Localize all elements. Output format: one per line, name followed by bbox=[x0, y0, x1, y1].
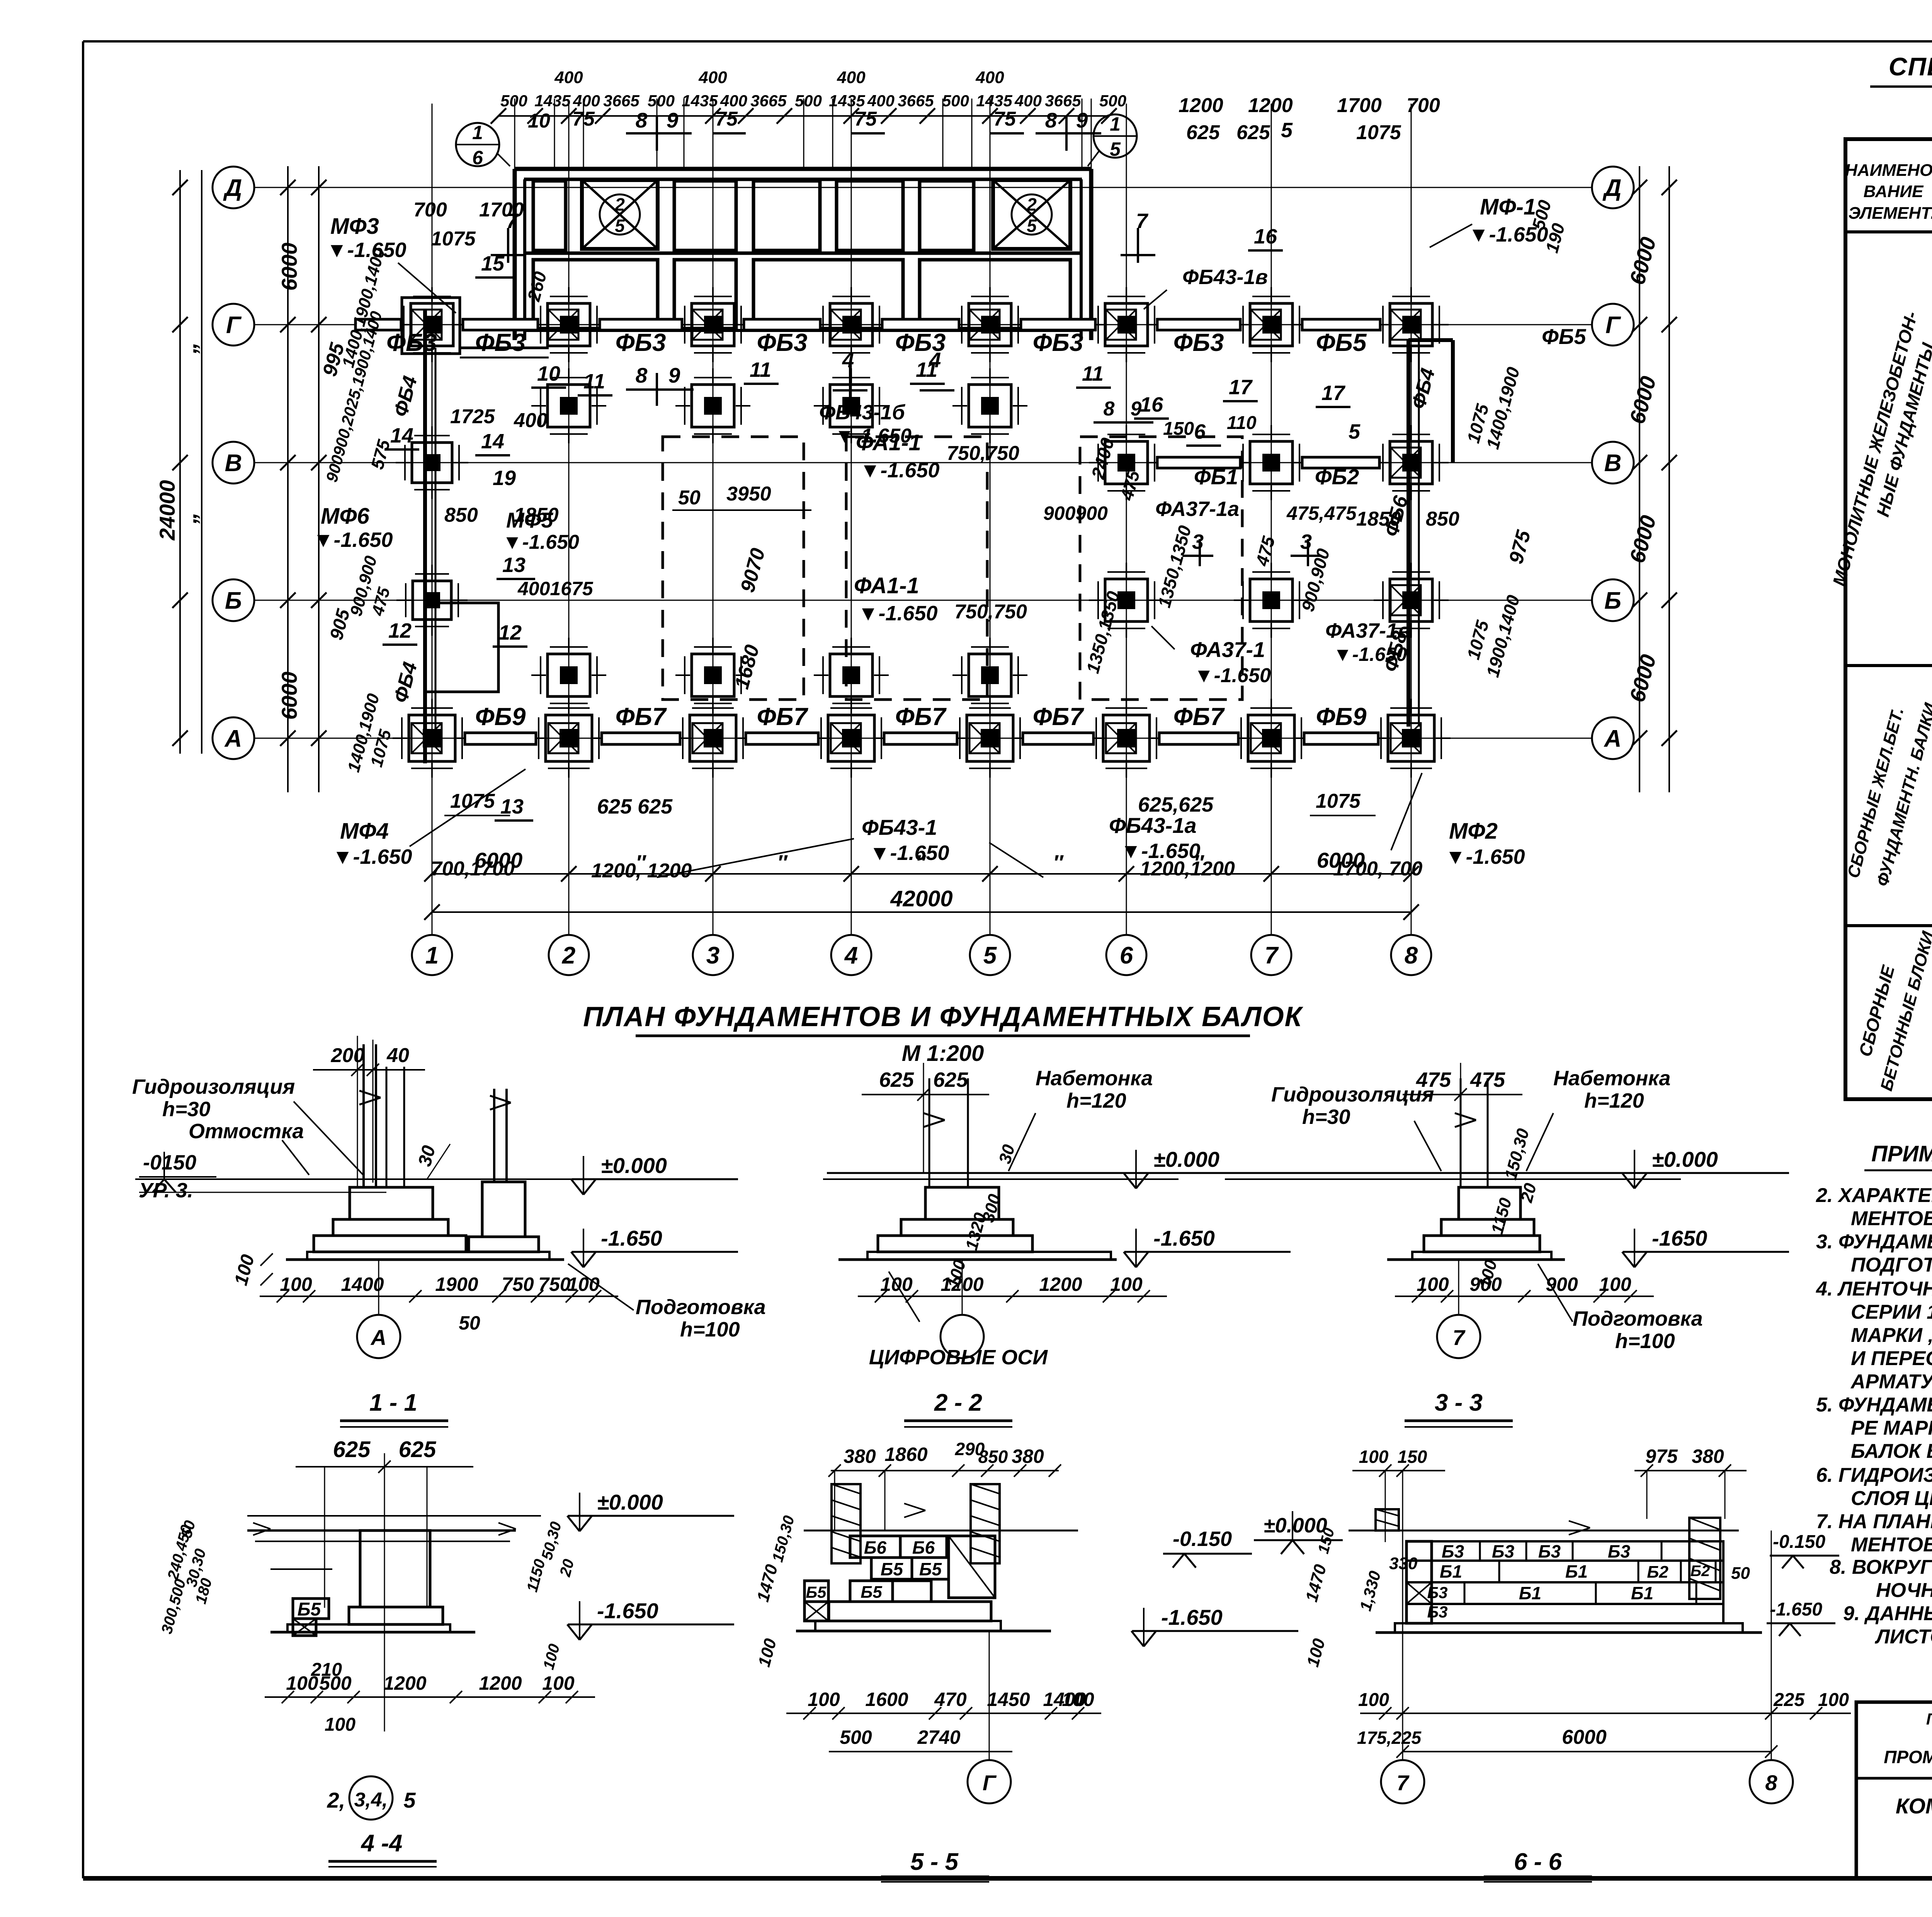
svg-text:И ПЕРЕСЕЧЕНИЯХ ЛЕНТОЧНЫХ ФУ: И ПЕРЕСЕЧЕНИЯХ ЛЕНТОЧНЫХ ФУНДАМЕНТОВ УКЛ… bbox=[1851, 1347, 1932, 1370]
svg-text:1350,1350: 1350,1350 bbox=[1154, 523, 1195, 610]
wall top inner line bbox=[524, 178, 1082, 181]
axis line 1 bbox=[432, 104, 433, 935]
svg-text:10: 10 bbox=[537, 362, 560, 385]
svg-text:h=30: h=30 bbox=[162, 1098, 211, 1121]
foundation pad row Г-В bbox=[969, 385, 1011, 427]
svg-text:Д: Д bbox=[223, 175, 242, 201]
svg-text:МФ3: МФ3 bbox=[330, 214, 379, 239]
svg-text:УР. 3.: УР. 3. bbox=[139, 1179, 193, 1202]
svg-text:3: 3 bbox=[1300, 530, 1312, 553]
axis line 6 bbox=[1126, 104, 1127, 935]
svg-text:▼-1.650: ▼-1.650 bbox=[313, 528, 393, 552]
svg-text:Гидроизоляция: Гидроизоляция bbox=[132, 1075, 295, 1098]
foundation pad row А bbox=[690, 715, 736, 761]
svg-text:475: 475 bbox=[1470, 1068, 1505, 1091]
svg-text:Б3: Б3 bbox=[1427, 1603, 1447, 1621]
svg-text:30: 30 bbox=[995, 1142, 1019, 1166]
svg-text:ФБ9: ФБ9 bbox=[475, 703, 526, 730]
foundation pad row А bbox=[1388, 715, 1434, 761]
svg-text:ФБ43-1: ФБ43-1 bbox=[862, 815, 937, 839]
svg-text:А: А bbox=[224, 725, 242, 752]
svg-text:ФБ5: ФБ5 bbox=[1316, 329, 1367, 356]
svg-text:2400: 2400 bbox=[1088, 436, 1118, 481]
svg-text:±0.000: ±0.000 bbox=[1153, 1147, 1219, 1171]
svg-text:Б1: Б1 bbox=[1631, 1583, 1653, 1603]
svg-text:13: 13 bbox=[502, 553, 526, 577]
svg-text:5: 5 bbox=[615, 216, 625, 236]
svg-text:7. НА ПЛАНЕ ПУНКТИРОМ ПОКАЗ: 7. НА ПЛАНЕ ПУНКТИРОМ ПОКАЗАНЫ ГАБАРИТЫ … bbox=[1816, 1510, 1932, 1533]
bottom dim line 6000 row bbox=[432, 873, 1411, 875]
svg-text:400: 400 bbox=[1014, 92, 1042, 110]
left dim chain lines bbox=[179, 170, 181, 754]
axis line Б bbox=[254, 600, 1592, 601]
svg-text:400: 400 bbox=[867, 92, 895, 110]
svg-text:6000: 6000 bbox=[1625, 513, 1661, 566]
svg-text:ПЛАН ФУНДАМЕНТОВ И ФУНДАМЕНТНЫ: ПЛАН ФУНДАМЕНТОВ И ФУНДАМЕНТНЫХ БАЛОК bbox=[583, 1001, 1304, 1032]
svg-text:h=100: h=100 bbox=[680, 1318, 740, 1341]
svg-text:ФБ43-1в: ФБ43-1в bbox=[1182, 266, 1268, 289]
svg-text:625: 625 bbox=[1236, 121, 1270, 144]
svg-text:Г: Г bbox=[983, 1771, 997, 1795]
wall left edge bbox=[513, 169, 517, 340]
svg-text:Б2: Б2 bbox=[1647, 1563, 1668, 1582]
section 2-2 bottom dims bbox=[858, 1296, 1167, 1297]
panel lower 3 bbox=[753, 260, 903, 329]
foundation pad row Б-А bbox=[830, 654, 872, 696]
foundation pad row Г bbox=[692, 303, 734, 346]
svg-text:100: 100 bbox=[1110, 1273, 1143, 1295]
svg-text:625: 625 bbox=[879, 1068, 914, 1091]
foundation pad row Г bbox=[969, 303, 1011, 346]
axis circle А right bbox=[1592, 717, 1634, 759]
svg-text:8: 8 bbox=[1045, 108, 1057, 132]
svg-text:150: 150 bbox=[1398, 1447, 1427, 1467]
dashed outline compressor 3 bbox=[1080, 437, 1242, 700]
svg-text:6: 6 bbox=[472, 147, 483, 169]
axis line 7 bbox=[1271, 104, 1272, 935]
axis line Д bbox=[254, 187, 1592, 188]
svg-text:Б5: Б5 bbox=[919, 1559, 942, 1579]
svg-text:h=100: h=100 bbox=[1615, 1330, 1675, 1353]
svg-text:2740: 2740 bbox=[917, 1726, 960, 1748]
foundation pad row Б right bbox=[1105, 579, 1148, 621]
svg-text:6000: 6000 bbox=[1317, 848, 1365, 872]
foundation pad row Г-В bbox=[830, 385, 872, 427]
foundation pad row Б-А bbox=[548, 654, 590, 696]
panel lower 1 bbox=[533, 260, 658, 329]
svg-text:700: 700 bbox=[413, 199, 447, 221]
svg-text:ФБ7: ФБ7 bbox=[895, 703, 947, 730]
svg-text:″: ″ bbox=[1194, 851, 1204, 874]
svg-text:14: 14 bbox=[390, 424, 413, 447]
svg-text:75: 75 bbox=[854, 108, 877, 130]
svg-text:±0.000: ±0.000 bbox=[601, 1153, 667, 1178]
wall col1 stub at Г bbox=[402, 298, 460, 354]
svg-text:ФБ3: ФБ3 bbox=[1033, 329, 1083, 356]
svg-text:-1.650: -1.650 bbox=[597, 1599, 658, 1623]
svg-text:995: 995 bbox=[318, 340, 349, 379]
svg-text:475,475: 475,475 bbox=[1286, 502, 1357, 524]
svg-text:-1650: -1650 bbox=[1652, 1226, 1707, 1250]
svg-text:17: 17 bbox=[1321, 381, 1346, 405]
section 3-3 drawing bbox=[1225, 1178, 1681, 1180]
svg-text:1900: 1900 bbox=[435, 1273, 478, 1295]
axis line 3 bbox=[713, 104, 714, 935]
svg-text:4 -4: 4 -4 bbox=[361, 1830, 403, 1857]
svg-text:1470: 1470 bbox=[753, 1562, 782, 1604]
svg-text:″: ″ bbox=[636, 851, 646, 874]
axis circle Г left bbox=[213, 304, 254, 346]
axis line В bbox=[254, 462, 1592, 463]
svg-text:9: 9 bbox=[667, 108, 679, 132]
svg-text:100: 100 bbox=[1599, 1273, 1631, 1295]
panel upper 6 bbox=[920, 181, 974, 250]
svg-text:НАИМЕНО-: НАИМЕНО- bbox=[1845, 161, 1932, 180]
svg-text:2. ХАРАКТЕРИСТИКА ГРУНТОВ, СЛ: 2. ХАРАКТЕРИСТИКА ГРУНТОВ, СЛУЖАЩИХ ОСНО… bbox=[1816, 1184, 1932, 1207]
svg-text:6000: 6000 bbox=[1625, 374, 1661, 427]
svg-text:▼-1.650: ▼-1.650 bbox=[860, 459, 940, 482]
svg-text:5: 5 bbox=[1349, 420, 1361, 443]
svg-text:▼-1.650: ▼-1.650 bbox=[327, 238, 406, 262]
pad col1 row Б bbox=[413, 581, 451, 620]
svg-text:ФБ7: ФБ7 bbox=[757, 703, 809, 730]
svg-text:11: 11 bbox=[1082, 362, 1104, 385]
svg-text:3665: 3665 bbox=[750, 92, 787, 110]
svg-text:ФБ43-1б: ФБ43-1б bbox=[819, 401, 905, 424]
svg-text:Б5: Б5 bbox=[881, 1559, 904, 1579]
svg-text:СЛОЯ ЦЕМЕНТНОГО РАСТВОРА СО: СЛОЯ ЦЕМЕНТНОГО РАСТВОРА СОСТАВА 1:2 ТОЛ… bbox=[1851, 1486, 1932, 1510]
svg-text:h=120: h=120 bbox=[1584, 1089, 1644, 1112]
svg-text:А: А bbox=[1604, 725, 1622, 752]
svg-text:Набетонка: Набетонка bbox=[1553, 1067, 1670, 1090]
svg-text:500: 500 bbox=[648, 92, 675, 110]
foundation pad row Б right bbox=[1390, 579, 1432, 621]
beam ФБ2 row В bbox=[1302, 457, 1379, 468]
svg-text:2: 2 bbox=[614, 194, 625, 215]
svg-text:КОМПРЕССОРНАЯ: КОМПРЕССОРНАЯ bbox=[1896, 1794, 1932, 1818]
section 4-4 bottom dims bbox=[265, 1696, 595, 1698]
svg-text:1860: 1860 bbox=[884, 1444, 927, 1465]
axis line А bbox=[254, 738, 1592, 739]
foundation pad row А bbox=[967, 715, 1013, 761]
svg-text:625,625: 625,625 bbox=[1138, 793, 1214, 816]
svg-text:975: 975 bbox=[1645, 1445, 1678, 1467]
svg-text:2: 2 bbox=[1026, 194, 1037, 215]
svg-text:ФБ2: ФБ2 bbox=[1315, 465, 1359, 489]
svg-text:500: 500 bbox=[942, 92, 969, 110]
svg-text:5: 5 bbox=[983, 942, 997, 969]
svg-text:19: 19 bbox=[493, 466, 516, 490]
beam row Г bbox=[463, 319, 538, 330]
svg-text:4: 4 bbox=[842, 348, 854, 372]
svg-text:260: 260 bbox=[523, 269, 550, 304]
svg-text:75: 75 bbox=[993, 108, 1016, 130]
svg-text:400: 400 bbox=[837, 68, 866, 87]
svg-text:500: 500 bbox=[500, 92, 527, 110]
svg-text:1350,1350: 1350,1350 bbox=[1082, 589, 1124, 676]
svg-text:400: 400 bbox=[573, 92, 600, 110]
wall right edge bbox=[1089, 169, 1094, 340]
svg-text:1435: 1435 bbox=[976, 92, 1012, 110]
svg-text:100: 100 bbox=[280, 1273, 312, 1295]
panel upper 3 bbox=[674, 181, 736, 250]
foundation pad row Г bbox=[1390, 303, 1432, 346]
axis circle Г right bbox=[1592, 304, 1634, 346]
svg-text:200: 200 bbox=[331, 1044, 365, 1067]
svg-text:Г: Г bbox=[1605, 312, 1621, 339]
svg-text:АРМАТУРНЫЕ СЕТКИ С-1 В КАЖДО: АРМАТУРНЫЕ СЕТКИ С-1 В КАЖДОМ ГОРИЗОНТАЛ… bbox=[1850, 1371, 1932, 1393]
svg-text:РЕ МАРКИ „100.“ НА УЧАСТКАХ М: РЕ МАРКИ „100.“ НА УЧАСТКАХ МЕЖДУ ТОРЦАМ… bbox=[1851, 1417, 1932, 1439]
svg-text:5 - 5: 5 - 5 bbox=[910, 1849, 959, 1875]
svg-text:Г: Г bbox=[226, 312, 242, 339]
svg-text:Гидроизоляция: Гидроизоляция bbox=[1271, 1083, 1434, 1106]
foundation pad row Г bbox=[830, 303, 872, 346]
svg-text:6000: 6000 bbox=[277, 672, 301, 720]
foundation pad row Г bbox=[1250, 303, 1293, 346]
svg-text:7: 7 bbox=[1396, 1771, 1410, 1795]
svg-text:″: ″ bbox=[1053, 851, 1064, 874]
svg-text:17: 17 bbox=[1229, 376, 1253, 399]
svg-text:ФБ4: ФБ4 bbox=[1407, 366, 1440, 412]
wall band middle line bbox=[524, 252, 1082, 255]
axis circle Д left bbox=[213, 167, 254, 208]
svg-text:ФБ43-1а: ФБ43-1а bbox=[1109, 813, 1197, 838]
axis line Г bbox=[254, 324, 1592, 325]
svg-text:7: 7 bbox=[1452, 1325, 1466, 1350]
svg-text:9. ДАННЫЙ ЛИСТ РАССМАТРИВАТ: 9. ДАННЫЙ ЛИСТ РАССМАТРИВАТЬ СОВМЕСТНО С bbox=[1843, 1602, 1932, 1625]
svg-text:3 - 3: 3 - 3 bbox=[1435, 1389, 1483, 1416]
svg-text:9: 9 bbox=[1131, 398, 1142, 420]
svg-text:6000: 6000 bbox=[474, 848, 523, 872]
table outer border bbox=[1845, 139, 1932, 1099]
svg-text:ФБ4: ФБ4 bbox=[389, 374, 422, 419]
svg-text:100: 100 bbox=[755, 1636, 780, 1669]
foundation pad row А bbox=[1248, 715, 1294, 761]
svg-text:3665: 3665 bbox=[898, 92, 934, 110]
axis circle 8 bbox=[1391, 935, 1431, 975]
svg-text:Б3: Б3 bbox=[1538, 1541, 1561, 1561]
axis line 8 bbox=[1411, 104, 1412, 935]
svg-text:ФА1-1: ФА1-1 bbox=[854, 573, 919, 598]
section 2-2 drawing bbox=[823, 1178, 1179, 1180]
svg-text:1435: 1435 bbox=[534, 92, 571, 110]
svg-text:-0150: -0150 bbox=[143, 1151, 196, 1174]
svg-text:5: 5 bbox=[1027, 216, 1037, 236]
svg-text:10: 10 bbox=[528, 110, 550, 132]
svg-text:380: 380 bbox=[1012, 1445, 1044, 1467]
svg-text:1850: 1850 bbox=[1356, 508, 1401, 530]
svg-text:20: 20 bbox=[556, 1557, 577, 1578]
svg-text:9: 9 bbox=[668, 363, 680, 387]
svg-text:625: 625 bbox=[1186, 121, 1220, 144]
svg-text:330: 330 bbox=[1389, 1554, 1418, 1573]
svg-text:625: 625 bbox=[399, 1437, 437, 1462]
svg-text:100: 100 bbox=[1303, 1636, 1329, 1669]
foundation pad row В right bbox=[1390, 441, 1432, 484]
svg-text:3. ФУНДАМЕНТЫ ПОД КОЛОННЫ–МОН: 3. ФУНДАМЕНТЫ ПОД КОЛОННЫ–МОНОЛИТНЫЕ ЖЕЛ… bbox=[1816, 1231, 1932, 1253]
svg-text:50: 50 bbox=[678, 487, 701, 509]
svg-text:″: ″ bbox=[915, 851, 926, 874]
section 4-4 axis circle bbox=[349, 1776, 393, 1820]
svg-text:11: 11 bbox=[916, 358, 937, 381]
svg-text:-1.650: -1.650 bbox=[1161, 1605, 1223, 1629]
svg-text:905: 905 bbox=[326, 606, 354, 642]
svg-text:1075: 1075 bbox=[450, 790, 495, 812]
svg-text:6000: 6000 bbox=[277, 243, 301, 291]
axis circle В right bbox=[1592, 442, 1634, 484]
foundation pad row А bbox=[546, 715, 592, 761]
svg-text:625: 625 bbox=[933, 1068, 968, 1091]
section 2-2 axis circle bbox=[962, 1260, 963, 1315]
axis circle 3 bbox=[693, 935, 733, 975]
foundation pad row В right bbox=[1105, 441, 1148, 484]
svg-text:▼-1.650: ▼-1.650 bbox=[869, 841, 949, 865]
svg-text:ФБ4: ФБ4 bbox=[389, 660, 422, 705]
svg-text:400: 400 bbox=[720, 92, 747, 110]
svg-text:1200: 1200 bbox=[383, 1672, 426, 1694]
svg-text:ФБ3: ФБ3 bbox=[475, 329, 526, 356]
svg-text:6000: 6000 bbox=[1562, 1726, 1607, 1748]
svg-text:Б1: Б1 bbox=[1565, 1561, 1588, 1582]
svg-text:225: 225 bbox=[1773, 1690, 1805, 1710]
section 1-1 axis circle А bbox=[378, 1260, 379, 1315]
right dim chain lines bbox=[1639, 166, 1640, 792]
svg-text:ФБ7: ФБ7 bbox=[1033, 703, 1085, 730]
svg-text:МФ4: МФ4 bbox=[340, 819, 389, 844]
svg-text:МЕНТОВ ПОД КОМПРЕССОР. ОТМЕ: МЕНТОВ ПОД КОМПРЕССОР. ОТМЕТКА ПОДОШВЫ -… bbox=[1851, 1534, 1932, 1556]
svg-text:Подготовка: Подготовка bbox=[1573, 1307, 1703, 1330]
svg-text:900: 900 bbox=[1469, 1273, 1502, 1295]
svg-text:1200: 1200 bbox=[1248, 94, 1293, 117]
svg-text:1200: 1200 bbox=[1039, 1273, 1082, 1295]
svg-text:Б: Б bbox=[225, 587, 242, 614]
svg-text:750,750: 750,750 bbox=[954, 601, 1027, 623]
svg-text:8. ВОКРУГ ЗДАНИЯ ВЫПОЛНИТЬ: 8. ВОКРУГ ЗДАНИЯ ВЫПОЛНИТЬ АСФАЛЬТОВУЮ О… bbox=[1830, 1556, 1932, 1578]
dashed outline compressor 2 bbox=[846, 437, 987, 700]
wall col8 vertical bbox=[1406, 340, 1410, 727]
svg-text:12: 12 bbox=[388, 619, 412, 642]
svg-text:75: 75 bbox=[715, 108, 738, 130]
svg-text:8: 8 bbox=[1405, 942, 1418, 969]
svg-text:″: ″ bbox=[777, 851, 788, 874]
pad col1 row В bbox=[412, 443, 452, 483]
svg-text:16: 16 bbox=[1140, 393, 1163, 416]
svg-text:150,30: 150,30 bbox=[769, 1514, 798, 1564]
svg-text:h=30: h=30 bbox=[1302, 1105, 1350, 1129]
table header lines bbox=[1845, 230, 1932, 233]
svg-text:625 625: 625 625 bbox=[597, 795, 673, 818]
svg-text:1: 1 bbox=[425, 942, 439, 969]
axis circle А left bbox=[213, 717, 254, 759]
svg-text:1450: 1450 bbox=[987, 1689, 1030, 1710]
axis line 2 bbox=[568, 104, 570, 935]
section 1-1 drawing bbox=[135, 1178, 626, 1180]
svg-text:Б3: Б3 bbox=[1492, 1541, 1515, 1561]
svg-text:1: 1 bbox=[472, 122, 483, 143]
bottom dim line 42000 row bbox=[432, 911, 1411, 913]
foundation pad row Г bbox=[1105, 303, 1148, 346]
foundation pad row В right bbox=[1250, 441, 1293, 484]
svg-text:3,4,: 3,4, bbox=[354, 1789, 388, 1811]
svg-text:100: 100 bbox=[542, 1672, 575, 1694]
svg-text:1470: 1470 bbox=[1302, 1562, 1330, 1604]
svg-text:100: 100 bbox=[1417, 1273, 1449, 1295]
svg-text:500: 500 bbox=[1099, 92, 1126, 110]
svg-text:975: 975 bbox=[1505, 528, 1535, 566]
panel upper X2 (detail 2/5) bbox=[993, 180, 1070, 249]
svg-text:h=120: h=120 bbox=[1066, 1089, 1126, 1112]
svg-text:14: 14 bbox=[481, 430, 504, 453]
beam row А bbox=[465, 733, 536, 744]
svg-text:Б: Б bbox=[1604, 587, 1621, 614]
svg-text:±0.000: ±0.000 bbox=[597, 1490, 663, 1514]
svg-text:110: 110 bbox=[1227, 413, 1257, 433]
svg-text:-0.150: -0.150 bbox=[1773, 1532, 1825, 1552]
svg-text:100: 100 bbox=[540, 1642, 563, 1672]
svg-text:6: 6 bbox=[1194, 420, 1206, 443]
svg-text:900900: 900900 bbox=[1043, 502, 1108, 524]
svg-text:ПРОМСТРОЙНИИПРОЕКТ: ПРОМСТРОЙНИИПРОЕКТ bbox=[1884, 1747, 1932, 1767]
svg-text:1 - 1: 1 - 1 bbox=[369, 1389, 417, 1416]
svg-text:380: 380 bbox=[844, 1445, 876, 1467]
svg-text:1075: 1075 bbox=[431, 228, 476, 250]
svg-text:А: А bbox=[370, 1325, 386, 1350]
svg-text:ФБ9: ФБ9 bbox=[1316, 703, 1367, 730]
section 1-1 bottom dims bbox=[260, 1296, 618, 1297]
svg-text:▼-1.650: ▼-1.650 bbox=[1445, 845, 1525, 868]
svg-text:В: В bbox=[1604, 450, 1622, 477]
svg-text:5: 5 bbox=[403, 1788, 416, 1812]
svg-text:9: 9 bbox=[1076, 108, 1088, 132]
foundation pad row Б right bbox=[1250, 579, 1293, 621]
svg-text:ФА37-1а: ФА37-1а bbox=[1155, 497, 1239, 521]
svg-text:-1.650: -1.650 bbox=[1153, 1226, 1215, 1250]
svg-text:Б5: Б5 bbox=[298, 1599, 321, 1620]
svg-text:НОЧНОМУ ОСНОВАНИЮ ШИРИНО: НОЧНОМУ ОСНОВАНИЮ ШИРИНОЙ 1. 0 М. bbox=[1876, 1578, 1932, 1602]
svg-text:6 - 6: 6 - 6 bbox=[1514, 1849, 1562, 1875]
svg-text:5: 5 bbox=[1281, 119, 1293, 142]
svg-text:ФА37-1в: ФА37-1в bbox=[1325, 619, 1410, 642]
panel upper 4 bbox=[753, 181, 820, 250]
axis circle 2 bbox=[549, 935, 589, 975]
svg-text:12: 12 bbox=[498, 621, 522, 644]
svg-text:МФ5: МФ5 bbox=[506, 508, 553, 532]
svg-text:3: 3 bbox=[1192, 530, 1204, 553]
svg-text:Подготовка: Подготовка bbox=[636, 1296, 766, 1319]
svg-text:400: 400 bbox=[514, 409, 548, 432]
axis line 5 bbox=[990, 104, 991, 935]
svg-text:Д: Д bbox=[1602, 175, 1622, 201]
svg-text:1150: 1150 bbox=[1488, 1196, 1515, 1236]
detail circle 1/6 bbox=[456, 123, 499, 166]
svg-text:100: 100 bbox=[1062, 1689, 1094, 1710]
svg-text:ЛИСТОМ КЖ - 5.: ЛИСТОМ КЖ - 5. bbox=[1874, 1626, 1932, 1648]
svg-text:1150: 1150 bbox=[524, 1557, 549, 1594]
svg-text:5. ФУНДАМЕНТНЫЕ БАЛКИ УСТАНА: 5. ФУНДАМЕНТНЫЕ БАЛКИ УСТАНАВЛИВАЮТСЯ НА… bbox=[1816, 1394, 1932, 1416]
svg-text:175,225: 175,225 bbox=[1357, 1728, 1422, 1748]
wall top outer line bbox=[515, 167, 1091, 171]
svg-text:470: 470 bbox=[934, 1689, 967, 1710]
panel upper X1 (detail 2/5) bbox=[582, 180, 658, 249]
svg-text:50,30: 50,30 bbox=[538, 1520, 565, 1562]
svg-text:1200: 1200 bbox=[1179, 94, 1223, 117]
svg-text:„: „ bbox=[175, 512, 201, 524]
svg-text:100: 100 bbox=[1818, 1690, 1849, 1710]
svg-text:3665: 3665 bbox=[1045, 92, 1081, 110]
svg-text:150: 150 bbox=[1163, 419, 1194, 439]
svg-text:Б3: Б3 bbox=[1442, 1541, 1464, 1561]
svg-text:11: 11 bbox=[583, 370, 605, 393]
